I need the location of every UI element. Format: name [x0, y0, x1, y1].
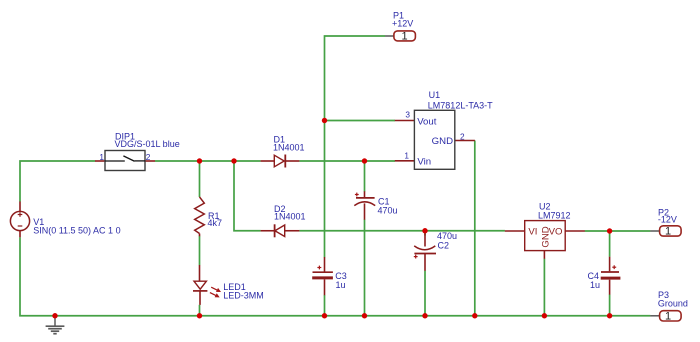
- D1 reference label: [274, 135, 286, 145]
- wire C4 top: [609, 231, 611, 257]
- svg-text:1: 1: [404, 150, 409, 160]
- svg-text:470u: 470u: [378, 205, 398, 215]
- U1 pin number 3: [405, 109, 410, 119]
- junction at C4 top on P2 net: [607, 228, 612, 233]
- junction at C2 top on negative rail: [422, 228, 427, 233]
- capacitor C2: [414, 233, 436, 271]
- svg-text:SIN(0 11.5 50) AC 1 0: SIN(0 11.5 50) AC 1 0: [33, 226, 120, 236]
- wire R1 to LED1: [199, 236, 201, 265]
- wire C1 bottom to ground: [364, 219, 366, 315]
- svg-text:U1: U1: [429, 90, 441, 100]
- port P2: [650, 226, 681, 238]
- svg-text:3: 3: [405, 109, 410, 119]
- wire C3 bottom to ground: [324, 295, 326, 316]
- junction at C4 bottom: [607, 313, 612, 318]
- wire D2 branch from main bus: [234, 161, 261, 231]
- LED LED1: [193, 265, 220, 305]
- U2 reference label: [539, 202, 551, 212]
- P2 reference label: [658, 207, 669, 217]
- U1 pin number 2: [460, 132, 465, 142]
- junction at +12V rail: [322, 118, 327, 123]
- svg-text:Vout: Vout: [417, 117, 437, 128]
- svg-text:LED-3MM: LED-3MM: [223, 291, 264, 301]
- C4 reference label: [588, 271, 600, 281]
- port P1: [385, 30, 415, 42]
- DIP1 value label: [115, 139, 180, 149]
- wire negative raw rail to U2 VI: [299, 230, 505, 232]
- junction at LED1 bottom: [197, 313, 202, 318]
- svg-text:1N4001: 1N4001: [273, 142, 305, 152]
- wire U1 GND down to ground bus: [474, 141, 476, 316]
- svg-text:VI: VI: [528, 227, 537, 238]
- R1 value label: [208, 218, 223, 228]
- U1 reference label: [429, 90, 441, 100]
- svg-text:1u: 1u: [336, 280, 346, 290]
- capacitor C4: [601, 257, 621, 295]
- wire R1 top: [199, 161, 201, 197]
- capacitor C3: [312, 257, 333, 295]
- wire main bus right to U1 Vin: [299, 160, 395, 162]
- svg-text:470u: 470u: [437, 231, 457, 241]
- port P3: [650, 310, 681, 322]
- wire C2 top: [424, 231, 426, 236]
- U2 value label: [538, 210, 571, 220]
- junction at ground symbol: [52, 313, 57, 318]
- DIP1 reference label: [115, 131, 135, 141]
- LED1 value label: [223, 291, 264, 301]
- U1 pin number 1: [404, 150, 409, 160]
- C1 reference label: [378, 196, 390, 206]
- wire U2 VO to P2: [585, 230, 651, 232]
- wire V1 bottom + ground bus: [20, 237, 650, 316]
- junction at C2 bottom: [422, 313, 427, 318]
- V1 reference label: [33, 217, 44, 227]
- svg-text:4k7: 4k7: [208, 218, 223, 228]
- svg-text:2: 2: [146, 152, 151, 162]
- wire main bus left + V1 top vertical: [20, 161, 95, 202]
- U1 pin name Vin: [417, 156, 431, 167]
- svg-text:1: 1: [402, 30, 408, 42]
- capacitor C1: [354, 191, 375, 219]
- wire C2 bottom to ground: [424, 271, 426, 316]
- junction at U2 GND bottom: [542, 313, 547, 318]
- R1 reference label: [208, 211, 220, 221]
- U1 pin name GND: [432, 136, 453, 147]
- C4 value label: [590, 280, 600, 290]
- junction at C3 bottom: [322, 313, 327, 318]
- C2 reference label: [438, 241, 450, 251]
- P1 net name +12V: [392, 19, 413, 29]
- svg-text:1: 1: [665, 226, 671, 238]
- wire main bus middle: [155, 160, 261, 162]
- D1 value label: [273, 142, 305, 152]
- wire C4 bottom to ground: [609, 294, 611, 315]
- P3 net name Ground: [658, 299, 688, 309]
- svg-text:1u: 1u: [590, 280, 600, 290]
- junction at C1 top on main bus: [362, 158, 367, 163]
- DIP1 pin number 1: [99, 152, 104, 162]
- svg-text:1: 1: [99, 152, 104, 162]
- P3 reference label: [658, 290, 669, 300]
- diode D2: [261, 224, 300, 237]
- switch DIP1: [95, 151, 155, 171]
- resistor R1: [195, 197, 205, 236]
- svg-text:1: 1: [665, 310, 671, 322]
- DIP1 pin number 2: [146, 152, 151, 162]
- C3 reference label: [335, 271, 347, 281]
- ground symbol: [46, 316, 65, 334]
- wire U2 GND to ground bus: [543, 259, 545, 316]
- regulator U2: [505, 221, 585, 259]
- wire LED1 bottom to ground: [199, 305, 201, 316]
- P2 net name -12V: [658, 215, 677, 225]
- U2 pin name VI: [528, 227, 537, 238]
- svg-text:LM7812L-TA3-T: LM7812L-TA3-T: [428, 101, 493, 111]
- U1 value label: [428, 101, 493, 111]
- svg-text:-12V: -12V: [658, 215, 677, 225]
- svg-text:2: 2: [460, 132, 465, 142]
- svg-text:LM7912: LM7912: [538, 210, 571, 220]
- U1 pin name Vout: [417, 117, 437, 128]
- LED1 reference label: [223, 282, 246, 292]
- U2 pin name VO: [549, 227, 563, 238]
- svg-text:Vin: Vin: [417, 156, 431, 167]
- junction at D2 branch on main bus: [231, 158, 236, 163]
- junction at R1 top on main bus: [197, 158, 202, 163]
- wire P1 net vertical: [325, 36, 386, 257]
- regulator U1: [395, 110, 475, 169]
- svg-text:GND: GND: [432, 136, 453, 147]
- diode D1: [261, 155, 300, 168]
- D2 reference label: [274, 204, 286, 214]
- svg-text:VDG/S-01L blue: VDG/S-01L blue: [115, 139, 180, 149]
- junction at U1 GND bottom: [472, 313, 477, 318]
- C2 value label: [437, 231, 457, 241]
- svg-text:1N4001: 1N4001: [274, 212, 306, 222]
- V1 value label: [33, 226, 120, 236]
- svg-text:C2: C2: [438, 241, 450, 251]
- voltage source V1: [10, 202, 29, 238]
- D2 value label: [274, 212, 306, 222]
- P1 reference label: [393, 10, 404, 20]
- C3 value label: [336, 280, 346, 290]
- wire +12V rail to U1 Vout: [325, 120, 396, 122]
- junction at C1 bottom: [362, 313, 367, 318]
- wire C1 top: [364, 161, 366, 192]
- svg-text:+12V: +12V: [392, 19, 413, 29]
- C1 value label: [378, 205, 398, 215]
- svg-text:GND: GND: [541, 226, 552, 247]
- U2 pin name GND rotated: [541, 226, 552, 247]
- svg-text:Ground: Ground: [658, 299, 688, 309]
